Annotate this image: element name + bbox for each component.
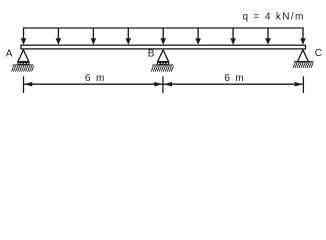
load arrow 1 xyxy=(21,28,27,45)
support A (roller) xyxy=(12,50,34,72)
load arrow 5 xyxy=(160,28,166,45)
load arrow 9 xyxy=(300,28,306,45)
dimension tick at A xyxy=(23,76,25,93)
distributed load top line xyxy=(23,27,304,29)
svg-text:q = 4 kN/m: q = 4 kN/m xyxy=(243,12,305,23)
dimension tick at B xyxy=(162,76,164,93)
dim arrowhead left (at A, pointing left) xyxy=(24,82,32,87)
load arrow 3 xyxy=(91,28,97,45)
load arrow 7 xyxy=(230,28,236,45)
support C (pin) xyxy=(293,50,313,68)
load arrow 8 xyxy=(265,28,271,45)
load arrow 2 xyxy=(56,28,62,45)
dimension line span B-C xyxy=(164,83,303,85)
load arrow 4 xyxy=(126,28,132,45)
svg-text:6 m: 6 m xyxy=(85,73,106,84)
dimension line span A-B xyxy=(24,83,163,85)
svg-text:C: C xyxy=(315,48,322,59)
dim arrowhead pointing right (at B, left span) xyxy=(154,82,162,87)
beam xyxy=(21,45,306,49)
svg-text:6 m: 6 m xyxy=(224,73,245,84)
svg-text:A: A xyxy=(6,48,13,59)
svg-text:B: B xyxy=(148,48,155,59)
dim arrowhead pointing right (at C) xyxy=(295,82,303,87)
support B (roller) xyxy=(151,50,173,72)
load arrow 6 xyxy=(195,28,201,45)
dim arrowhead pointing left (at B, right span) xyxy=(164,82,172,87)
dimension tick at C xyxy=(302,76,304,93)
